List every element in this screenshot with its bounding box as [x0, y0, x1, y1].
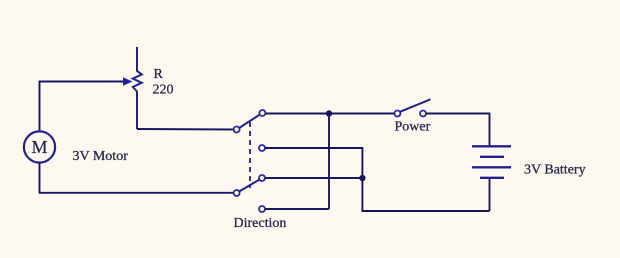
wire: motor top lead up and right to rheostat wiper arrow: [40, 82, 124, 133]
switch S1 pole 1: [234, 127, 240, 133]
wire: power switch to battery top: [426, 114, 489, 146]
switch S1 contact 1: [259, 110, 265, 116]
switch S1 contact 2: [259, 145, 265, 151]
switch S1 blade 2: [239, 180, 259, 192]
wire: contact 2 right and down to node B: [265, 148, 362, 178]
svg-text:M: M: [31, 137, 47, 157]
svg-text:Direction: Direction: [234, 216, 287, 231]
switch S2 right contact: [420, 111, 426, 117]
switch S1 blade 1: [239, 115, 259, 128]
wire: rheostat bottom to switch pole 1: [137, 128, 233, 131]
wire: contact 3 to node B: [265, 177, 362, 179]
node B junction dot: [359, 175, 365, 181]
wire: node B down to bottom rail: [362, 178, 489, 211]
switch S2 (Power) left contact: [394, 111, 400, 117]
switch S2 blade: [400, 99, 430, 111]
switch S1 pole 2: [234, 190, 240, 196]
switch S1 contact 3: [259, 175, 265, 181]
switch S1 contact 4: [259, 206, 265, 212]
wiper arrowhead into R1: [123, 77, 133, 85]
node A junction dot: [326, 110, 332, 116]
svg-text:220: 220: [153, 83, 174, 98]
svg-text:Power: Power: [395, 120, 431, 135]
battery B1 plate long: [472, 166, 511, 168]
resistor R1 (rheostat, vertical zigzag): [133, 47, 142, 129]
battery B1 plate long top: [472, 145, 511, 147]
wire: cross link node A down to contact 4 wire: [328, 114, 330, 210]
wire: battery bottom lead: [489, 179, 491, 211]
switch S1 mechanical link (dashed): [249, 122, 251, 188]
wire: contact 4 to cross link: [265, 208, 329, 210]
svg-text:3V Battery: 3V Battery: [524, 163, 586, 178]
wire: contact 1 to power switch: [266, 113, 395, 115]
battery B1 plate short: [480, 156, 504, 158]
battery B1 plate short bottom: [480, 177, 504, 179]
svg-text:3V Motor: 3V Motor: [73, 149, 129, 164]
wire: motor bottom lead down and right to switch pole 2: [40, 163, 234, 193]
motor U1 circle: [24, 131, 55, 162]
svg-text:R: R: [154, 67, 164, 82]
